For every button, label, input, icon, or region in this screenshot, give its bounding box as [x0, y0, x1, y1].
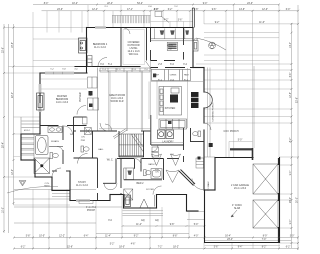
wic west wall [97, 158, 99, 188]
svg-text:WD CLG: WD CLG [129, 53, 139, 56]
bath2 east wall [163, 159, 165, 181]
porch edge lines right [207, 68, 209, 158]
outdoor living corner door [146, 61, 152, 70]
laundry west wall [150, 115, 152, 145]
svg-text:HALL: HALL [98, 148, 104, 151]
vanity [48, 127, 62, 133]
svg-text:PANT: PANT [184, 74, 190, 77]
svg-text:OVENS: OVENS [170, 75, 177, 77]
master south wall [40, 125, 59, 127]
porch leader line [7, 186, 58, 193]
svg-text:7'-2": 7'-2" [158, 247, 163, 249]
garage slab arrow [231, 210, 237, 217]
entry steps [123, 210, 164, 212]
svg-text:10'-0": 10'-0" [3, 207, 5, 213]
svg-text:PDR: PDR [81, 140, 86, 142]
great room beam line pair 1 [109, 71, 110, 131]
svg-text:5'-8": 5'-8" [26, 236, 31, 238]
svg-text:11'-4": 11'-4" [105, 236, 111, 238]
svg-text:W.I.C.: W.I.C. [107, 159, 114, 162]
svg-text:SLAB: SLAB [234, 207, 241, 210]
kitchen top wall [151, 67, 194, 69]
svg-text:9'-0": 9'-0" [290, 220, 292, 225]
room labels [24, 41, 250, 210]
garage top wall [215, 157, 253, 159]
shrub [209, 42, 216, 49]
bath2 tub [151, 169, 162, 179]
mud room right wall [183, 28, 185, 61]
right dim line 2 [297, 5, 299, 250]
hall cabinets [152, 147, 159, 157]
outdoor living top door arc [124, 28, 130, 34]
hall walls center [98, 130, 118, 132]
stair left wall [118, 131, 120, 157]
master west built-in [37, 93, 45, 110]
garage right wall [279, 158, 281, 243]
svg-text:10'-2": 10'-2" [72, 3, 78, 5]
second island [159, 119, 187, 129]
top wall bedroom wing [87, 27, 193, 29]
svg-text:M.CLO: M.CLO [24, 130, 31, 132]
svg-text:17'-1": 17'-1" [127, 9, 133, 11]
svg-text:4'-0": 4'-0" [154, 9, 159, 11]
svg-text:22'-4": 22'-4" [107, 3, 113, 5]
svg-text:18'-6": 18'-6" [12, 42, 14, 48]
left dim line 2 [8, 24, 10, 233]
mud hall pantry shelves [196, 158, 204, 168]
pantry sink dark 2 [89, 104, 93, 108]
yard arc top right [196, 38, 226, 50]
svg-text:4'-0": 4'-0" [194, 236, 199, 238]
shower [34, 158, 50, 174]
entry recess left [123, 195, 125, 209]
study left wall [69, 171, 71, 201]
porch header dark bar [230, 148, 253, 150]
svg-text:12'-0": 12'-0" [262, 9, 268, 11]
bottom dim line 2 [14, 248, 298, 250]
svg-text:54'-2": 54'-2" [137, 3, 143, 5]
laundry dim line [151, 142, 184, 144]
bath2 door stub [140, 159, 142, 172]
svg-text:6'-4": 6'-4" [290, 73, 292, 78]
front wall segment [110, 194, 124, 196]
bath left wall [34, 160, 36, 177]
top extension verticals [46, 11, 48, 33]
svg-text:PORCH: PORCH [87, 210, 96, 212]
left wall bedroom wing [86, 28, 88, 74]
svg-text:8'-8": 8'-8" [173, 236, 178, 238]
patio vertical [66, 190, 68, 249]
front wall east segment [157, 194, 187, 196]
mud bench striped block [167, 42, 177, 50]
wic south wall [103, 182, 116, 184]
bottom dim line 1 [14, 237, 298, 239]
closet shelves [22, 134, 35, 160]
garage door stubs [278, 158, 280, 242]
svg-text:8'-2": 8'-2" [290, 138, 292, 143]
garage bottom wall [205, 242, 280, 244]
porch header drop [252, 148, 254, 160]
master wing bottom wall [35, 176, 52, 178]
hall closet double doors B [171, 154, 181, 166]
svg-text:23'-4": 23'-4" [227, 239, 233, 241]
entry porch edge [124, 207, 157, 209]
hall south wall [187, 210, 199, 212]
garage west wall upper [214, 158, 216, 191]
svg-text:BED 2: BED 2 [137, 182, 145, 185]
svg-text:WOOD FLR: WOOD FLR [111, 100, 124, 103]
stair right wall [143, 131, 145, 157]
svg-text:4'-6": 4'-6" [131, 244, 136, 246]
bathtub [36, 136, 49, 155]
master door arc [52, 168, 61, 177]
patio line [14, 222, 96, 224]
fireplace bedroom [79, 38, 88, 53]
svg-text:LAUNDRY: LAUNDRY [162, 141, 174, 144]
eave lines horizontal left [33, 38, 87, 40]
svg-text:8'-9": 8'-9" [263, 236, 268, 238]
garage door X boxes [253, 164, 278, 228]
svg-text:LIN: LIN [81, 137, 85, 139]
master entry arc [77, 106, 86, 115]
great room beam line pair 3 [141, 71, 142, 131]
butler pantry corridor [88, 68, 99, 132]
appliance stack dark [191, 92, 199, 108]
left extension horizontals [4, 27, 87, 29]
laundry right wall [183, 128, 185, 150]
mud room bottom wall [151, 60, 184, 62]
kitchen right wall upper [192, 28, 194, 68]
great room dim row [99, 61, 188, 135]
bedroom corner cabinet [88, 56, 93, 67]
bedroom wing bottom wall [75, 66, 121, 68]
right extension horizontals [204, 23, 298, 25]
svg-text:28'-0": 28'-0" [290, 197, 292, 203]
garage west wall lower [204, 190, 206, 243]
svg-text:6'-2": 6'-2" [21, 247, 26, 249]
stairs [119, 134, 144, 156]
svg-text:8'-2": 8'-2" [262, 247, 267, 249]
svg-text:18'-2": 18'-2" [173, 247, 179, 249]
svg-text:22'-0": 22'-0" [12, 92, 14, 98]
door gap mud-south wall [157, 60, 164, 62]
powder door arc [78, 154, 88, 164]
bath hall arc [64, 126, 73, 135]
svg-text:28'-4": 28'-4" [3, 142, 5, 148]
svg-text:BUTLER: BUTLER [80, 92, 82, 101]
bed2 door arc [153, 186, 162, 195]
master wing top wall [40, 72, 87, 74]
svg-text:11-0 x 12-0: 11-0 x 12-0 [94, 46, 107, 49]
closet bottom wall [21, 159, 35, 161]
garage jog [205, 189, 216, 191]
bottom extension verticals [32, 190, 34, 249]
top dim line 1 [33, 4, 279, 6]
leader line [161, 16, 169, 23]
shower drain [40, 164, 43, 167]
range dark [170, 95, 178, 103]
porch triangle marker [19, 181, 26, 187]
window master west wall 2 [39, 103, 41, 112]
porch corner post [198, 157, 201, 160]
window seat row [100, 68, 150, 72]
entry side pier [154, 195, 156, 207]
bath hall west wall [62, 126, 64, 141]
svg-text:COV. PORCH: COV. PORCH [224, 130, 239, 133]
svg-text:5'-0": 5'-0" [238, 140, 243, 142]
patio / walkway thin lines [14, 66, 291, 249]
svg-text:24'-0": 24'-0" [57, 9, 63, 11]
kitchen dim line [151, 81, 203, 83]
svg-text:12'-2": 12'-2" [59, 236, 65, 238]
door X bed2 closet [124, 189, 133, 200]
patio line [14, 198, 70, 200]
window master west wall [39, 84, 41, 93]
svg-text:KITCHEN: KITCHEN [165, 107, 176, 110]
stair up arrow [113, 129, 127, 139]
svg-text:LIN: LIN [155, 172, 159, 174]
svg-text:5'-0 WALK: 5'-0 WALK [207, 181, 210, 191]
svg-text:11'-0: 11'-0 [116, 69, 121, 71]
linen cabinet x-box [84, 128, 91, 135]
svg-text:5'-6": 5'-6" [214, 247, 219, 249]
house right wall [203, 68, 205, 93]
linen shelf box [83, 117, 88, 124]
door gap mudroom east wall [183, 45, 185, 52]
svg-text:EQ: EQ [141, 220, 145, 222]
door gap mud west wall [150, 42, 152, 50]
door gap great room west wall [86, 77, 88, 85]
svg-text:4'-2": 4'-2" [164, 20, 169, 22]
svg-text:9'-2": 9'-2" [215, 22, 220, 24]
wic double door arcs [104, 183, 117, 190]
svg-text:W.C.: W.C. [70, 134, 75, 136]
master porch east wall [51, 177, 53, 191]
curved niche arc [204, 92, 212, 108]
svg-text:7'-0": 7'-0" [262, 239, 267, 241]
outdoor living right wall [146, 28, 148, 61]
svg-text:30'-0": 30'-0" [297, 197, 299, 203]
kitchen porch door arc [204, 123, 211, 130]
svg-text:32'-6": 32'-6" [3, 47, 5, 53]
door gap kitchen-top wall [158, 67, 165, 69]
svg-text:BATH 2: BATH 2 [148, 163, 156, 166]
great room beam line pair 2 [126, 71, 127, 131]
third level top dim [151, 21, 194, 23]
bath2 toilet [144, 170, 151, 176]
outdoor living ceiling line [123, 30, 145, 65]
bath2 door arc [135, 159, 142, 166]
svg-text:23-4 x 23-0: 23-4 x 23-0 [234, 187, 247, 190]
svg-text:24'-0": 24'-0" [247, 3, 253, 5]
svg-text:3'-0": 3'-0" [290, 236, 295, 238]
walkway line [187, 219, 205, 221]
entry recess right [156, 195, 158, 209]
svg-text:5'-0": 5'-0" [194, 224, 199, 226]
bed2 left wall [120, 159, 122, 189]
svg-text:9'-6": 9'-6" [212, 9, 217, 11]
svg-text:6'-0": 6'-0" [286, 9, 291, 11]
svg-text:11-0 x 12-0: 11-0 x 12-0 [76, 184, 89, 187]
svg-text:4'-1 x 6'-2: 4'-1 x 6'-2 [86, 207, 97, 209]
top dim line 2 [42, 10, 299, 12]
svg-text:FOYER: FOYER [146, 189, 154, 191]
eave line vertical left [32, 12, 34, 134]
window study front wall [76, 199, 90, 201]
bedroom SE door arc [98, 58, 107, 67]
svg-text:9'-0": 9'-0" [290, 171, 292, 176]
powder room walls [191, 128, 205, 142]
svg-text:5'-8": 5'-8" [194, 9, 199, 11]
powder toilet [81, 146, 89, 152]
bedroom right wall [120, 28, 122, 67]
entry door leaf [140, 199, 148, 208]
bed2 closet [124, 168, 134, 180]
master hall south stubs [52, 170, 57, 172]
kitchen island [159, 87, 182, 116]
laundry bottom wall [151, 144, 184, 146]
hall south wall [117, 158, 134, 160]
wc door arc [57, 147, 63, 153]
closet ext line [14, 156, 22, 158]
diagonal mud wall [179, 171, 194, 186]
patio line [14, 206, 122, 208]
great room south wall east piece [141, 130, 151, 132]
master porch steps [52, 193, 70, 195]
svg-text:6'-2": 6'-2" [286, 247, 291, 249]
study front wall [70, 200, 110, 202]
right dim line 1 [291, 23, 293, 248]
window master top wall [45, 72, 74, 74]
rear stoop box [155, 11, 162, 16]
hall east wall [186, 195, 188, 211]
svg-text:12'-4": 12'-4" [92, 9, 98, 11]
outdoor living bottom wall [121, 66, 140, 68]
pantry sink dark [89, 91, 93, 96]
svg-text:15'-6": 15'-6" [67, 247, 73, 249]
bath2 west stub [134, 159, 136, 169]
bath hall east wall [73, 117, 75, 152]
svg-text:EQ: EQ [155, 220, 159, 222]
upper closet [21, 117, 40, 134]
svg-text:M.BATH: M.BATH [51, 140, 59, 143]
master closet wall [74, 116, 87, 118]
trellis above wall [112, 16, 151, 24]
left dim line 1 [3, 24, 5, 233]
wic right wall [115, 159, 117, 184]
kitchen jog [193, 67, 204, 69]
svg-text:14-6 x 16-0: 14-6 x 16-0 [56, 101, 69, 104]
left dim line 3 [13, 24, 15, 205]
svg-text:PATIO: PATIO [44, 185, 50, 188]
hall south wall segment [167, 158, 179, 160]
porch column [209, 143, 213, 147]
svg-text:10'-0": 10'-0" [39, 236, 45, 238]
mud room left wall [150, 28, 152, 61]
hall arc [100, 123, 108, 131]
closet left wall [20, 134, 22, 160]
right wall nook [193, 41, 198, 52]
front jog vertical [109, 195, 111, 201]
bed2 closet hanger [128, 171, 132, 175]
hanger symbols [160, 30, 189, 34]
rear door arc [192, 179, 203, 190]
powder bottom [74, 157, 98, 159]
svg-text:16'-4": 16'-4" [225, 236, 231, 238]
washer dryer [158, 130, 174, 139]
stair bottom wall [119, 156, 144, 158]
master porch front wall [52, 190, 70, 192]
bottom dim extra [204, 240, 291, 242]
svg-text:18'-0": 18'-0" [119, 247, 125, 249]
svg-text:14'-0": 14'-0" [290, 42, 292, 48]
back counter row [152, 70, 191, 81]
hall text block [155, 169, 160, 174]
svg-text:8'-0": 8'-0" [44, 3, 49, 5]
door gap mud-south wall 2 [175, 60, 184, 62]
master wing left wall [39, 73, 41, 134]
patio line [14, 189, 96, 191]
svg-text:12'-2": 12'-2" [12, 169, 14, 175]
svg-text:52'-6": 52'-6" [297, 97, 299, 103]
powder top wall [74, 130, 77, 132]
svg-text:9'-4": 9'-4" [238, 247, 243, 249]
svg-text:9'-0": 9'-0" [203, 3, 208, 5]
wc enclosure wall [49, 146, 63, 148]
powder toilet 2 [193, 131, 201, 137]
svg-text:12'-6": 12'-6" [290, 92, 292, 98]
mud room closets [151, 29, 194, 41]
study window sill [79, 201, 93, 204]
stair top arc [105, 124, 112, 131]
svg-text:6'-4": 6'-4" [84, 236, 89, 238]
svg-text:COVERED PORCH: COVERED PORCH [213, 102, 215, 122]
kitchen corner sink [153, 74, 156, 78]
great room dim texts [102, 69, 148, 71]
master ceiling lines [41, 79, 87, 89]
svg-text:11'-6": 11'-6" [259, 22, 265, 24]
walkway line [187, 211, 205, 213]
window top wall [95, 26, 106, 28]
bath2 south wall [124, 179, 162, 181]
laundry sink dark [168, 121, 172, 124]
hall closet double doors A [152, 154, 162, 166]
svg-text:6'-2": 6'-2" [168, 9, 173, 11]
svg-text:9'-2": 9'-2" [134, 236, 139, 238]
closet bump top [21, 133, 40, 135]
svg-text:RM: RM [168, 48, 172, 51]
laundry arc [151, 145, 158, 152]
svg-text:3'-6": 3'-6" [178, 20, 183, 22]
toilet wc [50, 153, 58, 159]
svg-text:14'-6": 14'-6" [239, 9, 245, 11]
diagonal double doors [166, 170, 179, 183]
rear stoop wall spur [192, 8, 194, 28]
entry pier [125, 195, 131, 207]
svg-text:5'-2": 5'-2" [110, 244, 115, 246]
svg-text:11'-2": 11'-2" [136, 224, 142, 226]
powder wall [92, 131, 94, 158]
svg-text:9'-8": 9'-8" [170, 224, 175, 226]
